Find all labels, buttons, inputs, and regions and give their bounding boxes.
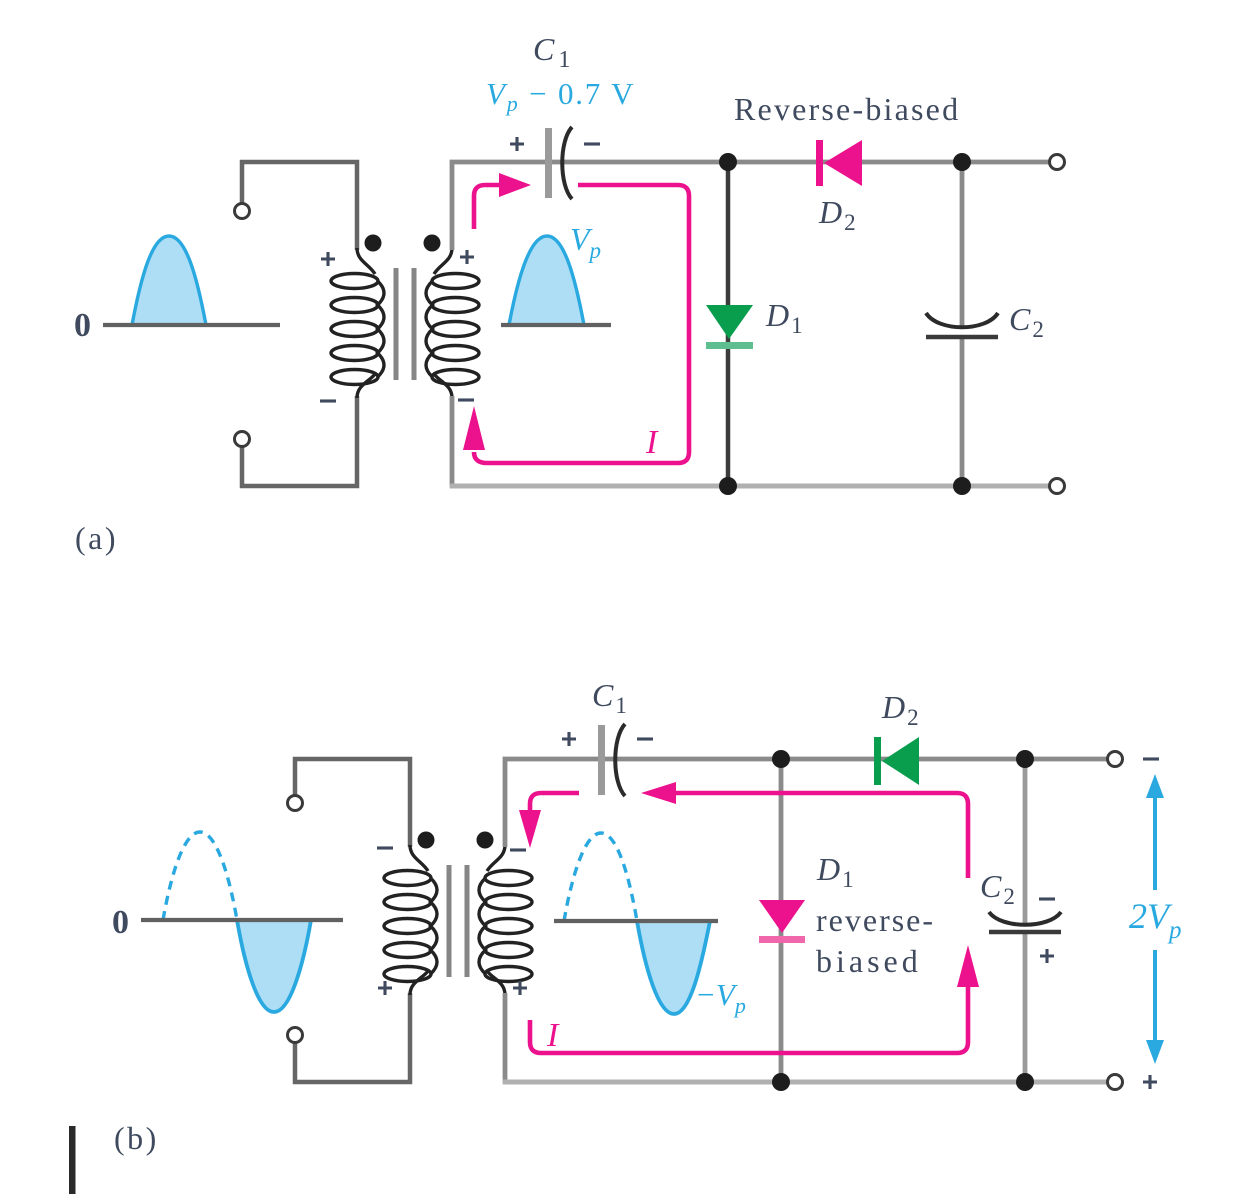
node: (b) top-left junction — [772, 750, 790, 768]
annotation: 2Vp output arrow (b) — [1146, 774, 1164, 1064]
page margin bar — [69, 1126, 76, 1194]
svg-text:C2: C2 — [1009, 301, 1044, 342]
label: + secondary top (a) — [460, 250, 474, 264]
label: + primary bottom (b) — [378, 981, 392, 995]
svg-text:Vp: Vp — [570, 221, 601, 263]
transformer T (b) : core — [449, 865, 467, 977]
transformer T (a) : phase dot secondary — [424, 235, 441, 252]
terminal: (a) source top — [235, 204, 250, 219]
wire: (a) bottom rail — [450, 484, 1050, 489]
current arrow down (b) — [519, 810, 541, 848]
wire: (a) D1 branch — [726, 162, 731, 486]
label: + of C2 (b) — [1040, 949, 1054, 963]
node: (a) top-right junction — [953, 153, 971, 171]
svg-text:(b): (b) — [114, 1120, 159, 1156]
capacitor C1 (a) — [545, 127, 572, 199]
wire: (a) C2 branch — [960, 162, 965, 486]
label: + of C1 (a) — [510, 137, 524, 151]
current loop I (b) — [530, 793, 968, 1053]
waveform: (b) input sine — [141, 832, 343, 1012]
transformer T (a) : phase dot primary — [365, 235, 382, 252]
current arrow left (b) — [641, 782, 676, 804]
wire: (a) secondary top lead + top rail — [452, 162, 1050, 250]
wire: (b) bottom rail — [503, 1080, 1108, 1085]
svg-text:C1: C1 — [533, 31, 570, 73]
transformer T (b) : secondary winding — [479, 845, 532, 995]
waveform: (a) secondary half-sine Vp — [501, 236, 611, 325]
wire: (a) source bottom lead — [242, 396, 357, 486]
terminal: (a) source bottom — [235, 432, 250, 447]
svg-text:(a): (a) — [75, 520, 118, 556]
transformer T (a) : core — [396, 268, 414, 380]
node: (a) bottom-right junction — [953, 477, 971, 495]
svg-text:I: I — [546, 1017, 560, 1054]
svg-text:D2: D2 — [818, 194, 856, 235]
label: - primary bottom (a) — [320, 400, 336, 402]
svg-text:D2: D2 — [881, 689, 919, 730]
capacitor C1 (b) — [598, 724, 625, 796]
svg-text:Vp − 0.7 V: Vp − 0.7 V — [486, 76, 635, 116]
terminal: (b) output top — [1108, 752, 1123, 767]
diode D2 (a) reverse-biased — [816, 140, 862, 186]
svg-text:C1: C1 — [592, 677, 627, 718]
waveform: (b) secondary sine — [554, 833, 718, 1014]
label: + of C1 (b) — [562, 732, 576, 746]
transformer T (b) : primary winding — [384, 845, 437, 995]
label: - secondary bottom (a) — [458, 399, 474, 401]
svg-text:I: I — [645, 424, 659, 461]
svg-text:0: 0 — [74, 307, 91, 344]
svg-text:D1: D1 — [816, 851, 854, 892]
wire: (b) secondary top lead + top rail — [505, 759, 1108, 847]
terminal: (b) source top — [288, 796, 303, 811]
svg-text:D1: D1 — [765, 297, 803, 338]
diode D2 (b) forward-biased — [874, 737, 919, 785]
label: - output (b) — [1143, 758, 1159, 760]
current arrow up (a) — [463, 406, 485, 450]
wire: (b) C2 branch — [1023, 759, 1028, 1082]
wire: (b) secondary bottom lead — [503, 993, 508, 1082]
wire: (a) source top lead — [242, 162, 357, 250]
label: - of C1 (a) — [584, 143, 600, 145]
current arrow right (a) — [499, 173, 531, 197]
wire: (a) secondary bottom lead — [450, 396, 455, 486]
node: (b) bottom-right junction — [1016, 1073, 1034, 1091]
label: - secondary top (b) — [510, 849, 526, 851]
svg-text:biased: biased — [816, 943, 922, 979]
transformer T (a) : primary winding — [331, 248, 384, 398]
svg-text:0: 0 — [112, 904, 129, 941]
label: + output (b) — [1143, 1075, 1157, 1089]
transformer T (b) : phase dot primary — [418, 832, 435, 849]
label: - of C2 (b) — [1039, 898, 1055, 900]
svg-text:2Vp: 2Vp — [1129, 896, 1182, 944]
svg-text:−Vp: −Vp — [695, 977, 746, 1018]
transformer T (a) : secondary winding — [426, 248, 479, 398]
wire: (b) source bottom lead — [295, 993, 410, 1082]
label: + primary top (a) — [321, 252, 335, 266]
terminal: (a) output top — [1050, 155, 1065, 170]
waveform: (a) input half-sine — [103, 236, 280, 325]
svg-text:reverse-: reverse- — [816, 902, 935, 938]
node: (a) bottom-left junction — [719, 477, 737, 495]
wire: (b) D1 branch — [779, 759, 784, 1082]
current loop I (a) — [474, 185, 689, 463]
svg-text:Reverse-biased: Reverse-biased — [734, 91, 960, 127]
label: - of C1 (b) — [637, 738, 653, 740]
terminal: (b) output bottom — [1108, 1075, 1123, 1090]
node: (a) top-left junction — [719, 153, 737, 171]
capacitor C2 (a) — [926, 313, 998, 337]
transformer T (b) : phase dot secondary — [477, 832, 494, 849]
label: - primary top (b) — [377, 847, 393, 849]
current arrow up (b) — [957, 945, 979, 987]
svg-text:C2: C2 — [980, 868, 1015, 909]
terminal: (b) source bottom — [288, 1028, 303, 1043]
label: + secondary bottom (b) — [513, 981, 527, 995]
wire: (b) source top lead — [295, 759, 410, 847]
diode D1 (b) reverse-biased — [759, 900, 805, 943]
capacitor C2 (b) — [989, 912, 1061, 932]
terminal: (a) output bottom — [1050, 479, 1065, 494]
node: (b) top-right junction — [1016, 750, 1034, 768]
diode D1 (a) — [706, 305, 753, 349]
node: (b) bottom-left junction — [772, 1073, 790, 1091]
